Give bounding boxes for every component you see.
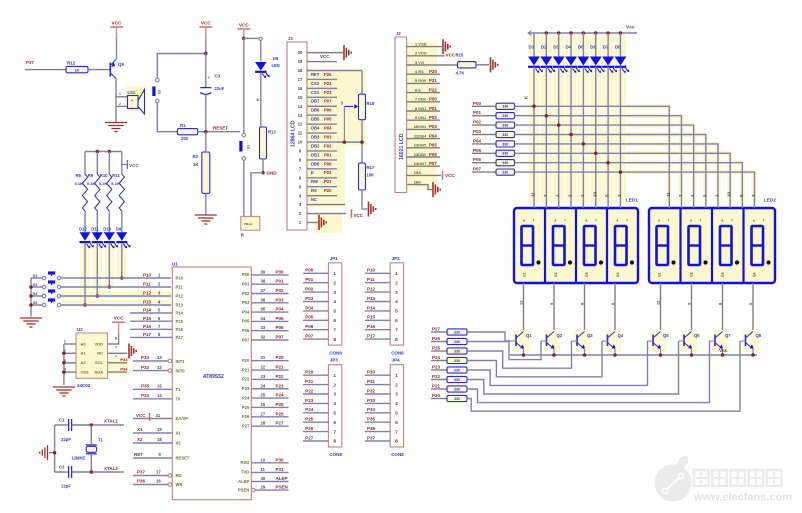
U1 pin 35 P04 [242,307,289,315]
JP1 pin 8 P07 [303,334,336,343]
LED2 digit 3 [720,219,739,278]
JP1 pin 4 P03 [303,296,336,305]
svg-text:XTAL2: XTAL2 [104,466,118,471]
J3 pin number 10 [298,140,303,145]
svg-text:P07: P07 [242,337,250,342]
svg-text:K: K [255,98,260,101]
svg-text:P12: P12 [367,287,376,292]
svg-text:4: 4 [333,401,336,407]
svg-text:7: 7 [333,429,336,435]
svg-text:P25: P25 [276,402,285,407]
svg-text:X1: X1 [137,427,143,432]
net label P00 segment ladder [472,101,496,107]
svg-text:15: 15 [157,384,162,389]
svg-text:13: 13 [298,113,303,118]
svg-text:P17: P17 [143,332,152,337]
svg-text:R9: R9 [88,173,94,178]
svg-text:VCC: VCC [201,21,212,26]
U1 pin 2 P11 [143,282,183,290]
svg-text:a: a [555,219,557,223]
svg-text:P24: P24 [276,393,285,398]
svg-text:P13: P13 [367,296,376,301]
U1 pin 32 P07 [242,335,289,343]
LED1 cell divider [544,209,546,282]
U1 pin 36 P03 [242,297,289,305]
net label P23 digit drive [431,365,447,371]
yellow patch J3 bottom rows [315,212,342,233]
diode D6 [590,33,605,73]
resistor R17 10K [359,163,375,190]
svg-text:P17: P17 [367,334,376,339]
svg-text:S1: S1 [247,145,251,149]
svg-text:3: 3 [395,290,398,296]
svg-text:330: 330 [502,124,508,128]
svg-text:P22: P22 [305,388,314,393]
power VCC S1 column [237,23,250,41]
svg-text:8: 8 [333,337,336,343]
svg-text:Q8: Q8 [756,333,762,338]
diode D10 LED [103,227,118,249]
JP4 pin 6 P35 [365,417,398,426]
J2 pin 16 K port [407,179,441,197]
J3 pin 2 VCC [307,209,364,218]
switch S1 [239,133,250,160]
svg-text:J2: J2 [396,31,401,36]
LED1 top pin 4 [555,194,560,208]
svg-text:G2: G2 [690,272,694,277]
svg-text:P20: P20 [432,393,441,398]
svg-text:330: 330 [454,340,460,344]
wire P27 to Q1 base [467,332,511,341]
svg-text:P30: P30 [367,370,376,375]
LED1 digit 2 [553,219,572,278]
svg-text:G2: G2 [554,272,558,277]
U1 pin 14 T0 [133,393,181,402]
svg-text:330: 330 [454,330,460,334]
svg-text:EA/VP: EA/VP [176,416,189,421]
U1 pin 13 INT1 [133,355,185,364]
svg-text:P11: P11 [143,282,151,287]
wire segment P00 to displays [515,105,670,203]
svg-text:1K: 1K [193,162,198,167]
J3 pin 6 RW P21 [307,178,337,184]
wire diode D2 cathode to LED1 pin [545,67,547,203]
svg-text:P00: P00 [276,269,285,274]
svg-text:330: 330 [502,161,508,165]
resistor R2 [193,132,210,194]
svg-text:D11: D11 [91,227,99,232]
LED1 bottom pin 8 [580,283,585,332]
svg-text:Q1: Q1 [526,333,532,338]
svg-text:SCL: SCL [95,360,104,365]
U1 pin 39 P00 [242,269,289,277]
svg-text:P11: P11 [367,277,375,282]
svg-text:34: 34 [261,316,266,321]
LED2 top pin 7 [678,194,683,208]
svg-text:2: 2 [333,280,336,286]
svg-text:1: 1 [64,340,66,344]
LED1 digit 1 [522,219,541,278]
JP3 pin 5 P24 [303,407,336,416]
svg-text:RET: RET [311,72,320,77]
net label P24 digit drive [431,355,447,361]
LCD module J3 12864 [287,36,307,230]
LED2 top pin 11 [666,192,671,208]
U1 pin 9 RESET [133,452,190,460]
svg-text:22: 22 [261,365,266,370]
JP2 pin 6 P15 [365,315,398,324]
ground U2 [53,387,75,396]
speaker terminals [116,92,128,106]
svg-text:38: 38 [261,279,266,284]
J2 pin 12 DB5 P05 [407,143,440,148]
U1 pin 21 P20 [242,355,289,363]
potentiometer R18 [341,71,375,143]
LED2 top pin 5 [739,194,744,208]
capacitor C3 [200,74,224,95]
resistor digit R9 330 [447,329,467,335]
J3 pin number 9 [299,149,302,154]
JP3 pin 6 P25 [303,417,336,426]
svg-text:5.1K: 5.1K [111,181,120,186]
wire LED column 4 to key row [120,243,124,280]
yellow strips under key LEDs [80,246,90,305]
svg-text:P36: P36 [367,426,376,431]
svg-text:P37: P37 [367,435,376,440]
wire diode D7 cathode to LED1 pin [607,67,609,203]
J2 pin 10 DB3 P03 [407,124,440,129]
svg-text:P22: P22 [429,87,437,92]
J3 pin number 16 [298,86,303,91]
J3 pin number 12 [298,122,303,127]
J3 pin 7 E P22 [307,169,337,175]
J3 pin number 5 [299,184,302,189]
capacitor C2 22pF [55,465,92,489]
svg-text:TXD: TXD [241,470,249,475]
wire key row 1 to U1 [61,277,171,279]
ground below R2 [195,193,217,224]
svg-text:P11: P11 [176,285,184,290]
svg-text:18: 18 [157,437,162,442]
svg-text:Q3: Q3 [587,333,593,338]
svg-text:21: 21 [261,355,266,360]
yellow bands ladder rows to LED2 [627,104,670,109]
LED2 top pin 3 [751,194,756,208]
net label P26 digit drive [431,336,447,342]
wire segment P07 to displays [515,170,755,203]
wire P25 to Q3 base [467,341,572,368]
svg-text:VDD: VDD [95,341,104,346]
svg-text:1: 1 [119,92,121,96]
svg-text:P12: P12 [143,291,152,296]
svg-text:DB1: DB1 [418,106,427,111]
J3 pin 5 RS P20 [307,187,337,193]
svg-text:P24: P24 [324,81,332,86]
transistor Q6 [679,330,701,355]
JP2 pin 8 P17 [365,334,398,343]
wire U2 SCL [108,357,129,363]
svg-text:P20: P20 [242,358,250,363]
svg-text:A1: A1 [81,351,87,356]
transistor Q4 [602,330,624,355]
wire VCC node to D9 branch [244,37,262,40]
wire P24 to Q4 base [467,341,602,377]
JP1 pin 1 P00 [303,268,336,277]
svg-text:DB4: DB4 [418,133,427,138]
svg-text:RW: RW [311,179,318,184]
svg-text:XTAL1: XTAL1 [104,419,118,424]
svg-text:P03: P03 [473,129,482,134]
svg-text:P00: P00 [429,97,437,102]
svg-text:D12: D12 [79,227,87,232]
svg-text:P16: P16 [367,324,376,329]
transistor Q9 [110,60,124,79]
J3 pin number 1 [299,220,302,225]
svg-text:8: 8 [395,337,398,343]
svg-text:CON8: CON8 [329,452,342,457]
J2 pin 5 R/W P21 [407,78,440,83]
wire key row 2 to U1 [61,286,171,288]
svg-text:P25: P25 [324,72,332,77]
push button S5 [31,298,61,306]
diode D12 LED [79,227,94,249]
svg-text:Q6: Q6 [694,333,700,338]
svg-text:2: 2 [395,382,398,388]
svg-text:P16: P16 [176,327,184,332]
LED2 cell divider [679,209,681,282]
resistor segment R4 330 [496,131,515,137]
svg-text:Vcc: Vcc [719,348,728,354]
svg-text:330: 330 [454,378,460,382]
svg-text:DB0: DB0 [311,161,320,166]
diode D9 LED [116,227,131,249]
svg-text:P21: P21 [305,379,314,384]
svg-text:5.1K: 5.1K [87,181,96,186]
svg-text:7: 7 [395,429,398,435]
svg-text:7: 7 [333,327,336,333]
LED1 bottom pin 6 [610,283,615,332]
LED2 bottom pin 12 [656,283,661,332]
svg-text:P20: P20 [276,355,285,360]
svg-text:R10: R10 [100,173,108,178]
JP2 pin 5 P14 [365,305,398,314]
resistor segment R8 330 [496,169,515,175]
power VCC reset [199,21,212,56]
svg-text:VCC: VCC [354,213,364,218]
svg-text:DB2: DB2 [311,143,320,148]
svg-text:5.1K: 5.1K [99,181,108,186]
LED2 top pin 2 [702,194,707,208]
svg-text:U2: U2 [77,327,83,332]
JP4 pin 3 P32 [365,388,398,397]
svg-text:330: 330 [502,152,508,156]
U1 pin 19 X1 [133,427,181,435]
U2 pin row 3 [64,355,117,365]
svg-text:Q4: Q4 [618,333,624,338]
LED2 bottom pin 6 [748,283,753,332]
resistor segment R1 330 [496,103,515,109]
J3 pin 11 DB3 P03 [307,133,337,139]
net label P05 segment ladder [472,148,496,154]
LED1 top pin 5 [605,194,610,208]
J3 pin number 15 [298,95,303,100]
svg-text:P37: P37 [137,470,146,475]
svg-text:A2: A2 [81,360,87,365]
U1 pin 5 P14 [130,308,184,316]
svg-text:P37: P37 [26,60,35,65]
wire VCC to S1 [243,38,245,133]
U2 pin row 4 [64,364,117,374]
svg-text:D9: D9 [273,56,279,61]
U1 pin 3 P12 [143,291,184,299]
JP3 pin 1 P20 [303,370,336,379]
svg-text:1K: 1K [75,69,80,73]
svg-text:a: a [722,219,724,223]
svg-text:P00: P00 [242,272,250,277]
label K [524,95,529,99]
resistor digit R12 330 [447,357,467,363]
svg-text:R1: R1 [180,123,186,128]
net XTAL2 [90,466,124,474]
connector JP4 [390,358,403,447]
svg-text:P02: P02 [242,291,250,296]
svg-text:VCC: VCC [320,54,330,59]
LED2 digit 2 [689,219,708,278]
U1 pin 29 PSEN [238,485,289,493]
wire D9 to R13 [255,73,261,127]
J3 pin 16 CS1 P23 [307,88,337,94]
U1 pin 25 P24 [242,393,289,401]
svg-text:G3: G3 [721,272,725,277]
wire LED column 3 to key row [108,243,112,289]
transistor Q7 [710,330,732,355]
svg-text:P00: P00 [473,101,482,106]
svg-text:15: 15 [298,95,303,100]
svg-text:G4: G4 [753,272,757,277]
U1 pin 10 RXD [240,457,288,465]
svg-text:a: a [658,219,660,223]
svg-text:8: 8 [333,439,336,445]
svg-text:a: a [586,219,588,223]
svg-text:CS1: CS1 [311,90,320,95]
svg-text:P05: P05 [473,148,482,153]
svg-text:PSEN: PSEN [238,487,249,492]
svg-text:11: 11 [261,467,266,472]
svg-text:DB4: DB4 [311,126,320,131]
J2 pin 13 DB6 P06 [407,152,440,157]
svg-text:6: 6 [395,420,398,426]
resistor R13 [260,127,277,159]
svg-text:6: 6 [333,318,336,324]
svg-text:P04: P04 [429,133,437,138]
svg-text:27: 27 [261,411,266,416]
LED1 top pin 11 [531,192,536,208]
svg-text:330: 330 [454,359,460,363]
svg-text:P26: P26 [276,411,285,416]
svg-text:330: 330 [454,368,460,372]
svg-text:P05: P05 [429,143,437,148]
LED1 bottom pin 9 [549,283,554,332]
svg-text:P33: P33 [120,357,128,362]
J3 pin number 18 [298,68,303,73]
J2 pin 6 E P22 [407,87,440,92]
svg-text:P31: P31 [276,467,285,472]
svg-text:S3: S3 [158,90,162,94]
svg-text:P20: P20 [429,69,437,74]
svg-text:DB6: DB6 [311,108,320,113]
J2 pin 15 A VCC [407,170,456,180]
JP4 pin 4 P33 [365,398,398,407]
svg-text:P13: P13 [143,300,152,305]
svg-text:P03: P03 [429,124,437,129]
svg-text:C2: C2 [59,465,65,470]
net label P21 digit drive [431,384,447,390]
svg-text:VO: VO [418,60,424,65]
svg-text:a: a [753,219,755,223]
svg-text:VDD: VDD [418,51,427,56]
JP1 pin 5 P04 [303,305,336,314]
svg-text:P06: P06 [242,328,250,333]
resistor R11 5.1K [111,152,124,233]
U1 pin 38 P01 [242,279,289,287]
U2 pin7 port [108,344,137,359]
U1 pin 34 P05 [242,316,289,324]
JP2 pin 1 P10 [365,268,398,277]
net label P22 digit drive [431,374,447,380]
U1 pin 16 WR [133,479,182,487]
svg-text:10: 10 [727,191,732,197]
U1 pin 12 INT0 [133,365,185,374]
LED1 top pin 7 [543,194,548,208]
svg-text:P24: P24 [432,355,441,360]
svg-text:T1: T1 [98,438,104,443]
svg-text:P05: P05 [305,315,314,320]
svg-text:JP1: JP1 [330,256,339,261]
svg-text:JP3: JP3 [330,358,339,363]
svg-text:NC: NC [311,197,317,202]
wire segment P01 to displays [515,114,682,203]
svg-text:X2: X2 [176,441,182,446]
rail resistor network top [85,150,122,154]
U1 pin 27 P26 [242,411,289,419]
svg-text:P06: P06 [429,152,437,157]
svg-text:DB2: DB2 [418,115,427,120]
svg-text:10: 10 [261,457,266,462]
svg-text:VSS: VSS [81,370,89,375]
svg-text:P02: P02 [473,120,482,125]
svg-text:22uF: 22uF [215,86,225,91]
svg-text:P20: P20 [324,188,332,193]
svg-text:19: 19 [157,427,162,432]
JP4 pin 1 P30 [365,370,398,379]
resistor segment R7 330 [496,160,515,166]
svg-text:VCC: VCC [446,52,456,57]
resistor R12 [66,61,88,73]
svg-text:P26: P26 [242,414,250,419]
resistor digit R15 330 [447,386,467,392]
svg-text:P25: P25 [242,405,250,410]
wire diode D8 cathode to LED1 pin [619,67,621,203]
yellow strips diode columns [528,33,539,203]
svg-text:INT0: INT0 [176,368,186,373]
J3 pin 12 DB4 P04 [307,124,337,130]
svg-text:A: A [418,170,421,175]
svg-text:5.1K: 5.1K [75,181,84,186]
svg-text:P23: P23 [432,365,441,370]
svg-text:P20: P20 [305,370,314,375]
J2 pin 1 VSS port [407,39,451,54]
svg-text:P07: P07 [276,335,285,340]
